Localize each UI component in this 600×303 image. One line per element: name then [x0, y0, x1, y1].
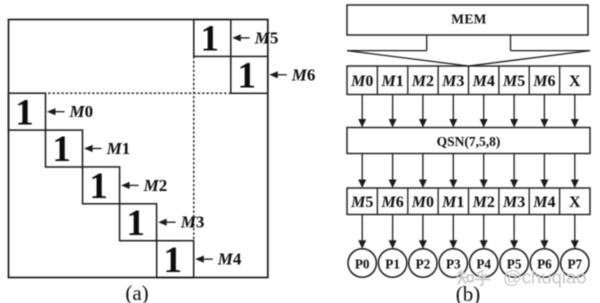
svg-text:M4: M4: [217, 250, 242, 269]
svg-text:1: 1: [238, 56, 257, 97]
svg-text:M0: M0: [411, 194, 434, 211]
svg-text:P4: P4: [476, 257, 491, 272]
svg-text:(b): (b): [456, 282, 481, 303]
svg-text:M0: M0: [350, 73, 373, 90]
svg-text:M1: M1: [441, 194, 464, 211]
svg-text:M2: M2: [472, 194, 495, 211]
svg-text:P1: P1: [385, 257, 400, 272]
svg-text:M5: M5: [502, 73, 525, 90]
svg-text:M4: M4: [472, 73, 495, 90]
svg-text:P3: P3: [446, 257, 461, 272]
svg-text:M2: M2: [143, 176, 168, 195]
svg-text:X: X: [569, 194, 581, 211]
svg-text:M3: M3: [502, 194, 525, 211]
svg-text:M1: M1: [106, 139, 131, 158]
svg-text:M6: M6: [291, 65, 316, 84]
svg-text:M3: M3: [180, 213, 205, 232]
svg-text:1: 1: [163, 240, 182, 281]
svg-text:@chuqiao: @chuqiao: [503, 267, 587, 288]
svg-text:M4: M4: [532, 194, 555, 211]
svg-text:1: 1: [52, 129, 71, 170]
svg-text:M2: M2: [411, 73, 434, 90]
svg-text:1: 1: [126, 203, 145, 244]
svg-text:M5: M5: [254, 28, 279, 47]
svg-text:M5: M5: [350, 194, 373, 211]
svg-text:X: X: [569, 73, 581, 90]
svg-text:M6: M6: [380, 194, 403, 211]
svg-text:QSN(7,5,8): QSN(7,5,8): [437, 134, 501, 149]
svg-text:P0: P0: [355, 257, 370, 272]
svg-text:M0: M0: [69, 102, 94, 121]
svg-text:1: 1: [89, 166, 108, 207]
svg-text:M6: M6: [532, 73, 555, 90]
svg-text:M1: M1: [380, 73, 403, 90]
svg-text:M3: M3: [441, 73, 464, 90]
svg-text:1: 1: [201, 19, 220, 60]
svg-text:P2: P2: [416, 257, 431, 272]
svg-text:(a): (a): [125, 281, 148, 303]
svg-text:1: 1: [15, 92, 34, 133]
svg-text:MEM: MEM: [451, 11, 486, 26]
